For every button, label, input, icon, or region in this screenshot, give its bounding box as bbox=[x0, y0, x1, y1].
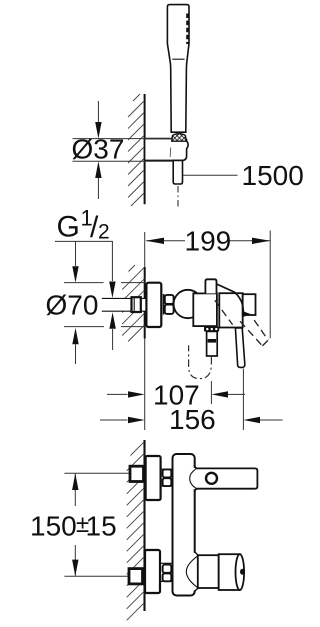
lever knob (top view): erase bar edge bbox=[193, 553, 198, 591]
dimension 107 bbox=[107, 393, 128, 395]
svg-text:Ø37: Ø37 bbox=[72, 134, 125, 165]
inlet pipe (G 1/2 nipple) bbox=[102, 298, 147, 311]
dimension 199 line and arrows bbox=[146, 240, 185, 242]
bottom connection: leader/extension line bbox=[64, 575, 128, 577]
lever hub bbox=[243, 294, 256, 315]
lever knob chamfers bbox=[195, 552, 198, 555]
hose centerline curve bbox=[189, 345, 212, 378]
lever dashed (raised position) bbox=[215, 300, 268, 346]
bottom connection: square nut at wall bbox=[129, 569, 143, 584]
lever grip (solid, down position) bbox=[235, 328, 244, 368]
svg-text:150: 150 bbox=[30, 510, 77, 541]
dimension Ø37 extension lines bbox=[73, 138, 172, 140]
aerator hole bbox=[206, 473, 217, 484]
wall bracket holder bbox=[145, 139, 189, 161]
svg-text:Ø70: Ø70 bbox=[46, 290, 99, 321]
spray face dashed line bbox=[186, 14, 189, 45]
bottom connection: hex nut facets bbox=[163, 565, 172, 573]
lever knob cylinder 2 bbox=[219, 554, 240, 590]
outlet flange with dots bbox=[204, 327, 219, 332]
conical seal (crosshatched) bbox=[172, 134, 186, 142]
dimension Ø37 arrows bbox=[97, 101, 99, 125]
escutcheon middle section bbox=[146, 283, 161, 327]
dark band on outlet tube bbox=[208, 339, 216, 343]
extension line right of 199 bbox=[269, 231, 271, 339]
svg-text:199: 199 bbox=[185, 225, 232, 256]
top connection: leader/extension line bbox=[64, 472, 129, 474]
bracket hidden edge bbox=[169, 148, 171, 158]
ball joint bbox=[174, 290, 202, 318]
bottom connection: hex nut lines bbox=[160, 562, 173, 564]
dimension Ø70 extension lines bbox=[64, 282, 104, 284]
spout arm outline bbox=[195, 468, 257, 488]
diverter knob on top bbox=[205, 279, 216, 293]
wall line top section bbox=[144, 94, 146, 204]
lever knob cone arc bbox=[186, 556, 198, 588]
wall hatching bottom section bbox=[127, 442, 145, 620]
lever knob end cap ellipse bbox=[236, 554, 245, 590]
top connection: square nut at wall bbox=[130, 466, 144, 481]
wall hatching top section bbox=[128, 94, 144, 206]
svg-text:2: 2 bbox=[98, 220, 110, 243]
lever knob cylinder 1 bbox=[198, 555, 219, 588]
union nut (side view facets) bbox=[163, 294, 165, 315]
lever top edge (solid) bbox=[216, 284, 243, 313]
svg-text:1500: 1500 bbox=[242, 160, 304, 191]
spout arm (top view): erase bar edge at junction bbox=[193, 468, 197, 489]
dimension 156 bbox=[100, 419, 128, 421]
dimension 150±15 bbox=[74, 474, 76, 506]
bottom connection: escutcheon bbox=[145, 550, 160, 593]
svg-text:156: 156 bbox=[169, 404, 216, 435]
wall line middle section bbox=[144, 232, 146, 267]
spout fillet arc bbox=[190, 469, 196, 488]
wall line bottom section bbox=[143, 440, 145, 611]
svg-text:G: G bbox=[57, 211, 80, 244]
outlet tube bbox=[207, 331, 218, 356]
body bar (top view) bbox=[173, 454, 195, 596]
lever cap bbox=[219, 293, 242, 327]
leader line 1500 bbox=[183, 174, 238, 176]
hose connector tube below bracket bbox=[173, 160, 182, 184]
svg-text:15: 15 bbox=[86, 510, 117, 541]
grip joint line bbox=[172, 58, 184, 60]
knob end dot bbox=[240, 569, 245, 575]
lever tip wedge bbox=[242, 311, 251, 317]
top connection: hex nut lines bbox=[161, 468, 173, 470]
wall hatching middle section bbox=[122, 265, 144, 342]
spout junction corner rounds bbox=[195, 465, 199, 493]
G 1/2 lower leader arrows bbox=[112, 329, 114, 350]
top connection: escutcheon bbox=[146, 456, 161, 500]
centerline below tube bbox=[177, 186, 179, 209]
hand shower head and handle bbox=[167, 5, 189, 133]
top connection: hex nut facets bbox=[163, 469, 172, 477]
mixer body bbox=[193, 293, 217, 326]
square nut on inlet pipe bbox=[132, 297, 141, 312]
G 1/2 underline and leaders bbox=[55, 241, 112, 281]
